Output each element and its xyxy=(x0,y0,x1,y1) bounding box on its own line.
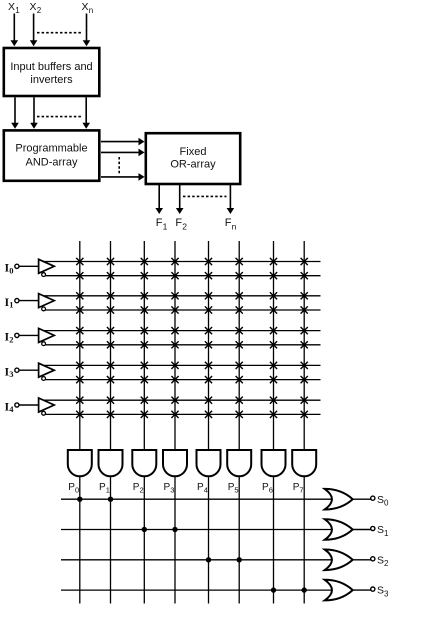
svg-text:5: 5 xyxy=(234,486,238,495)
svg-text:1: 1 xyxy=(163,221,168,231)
block U2: Programmable AND-array xyxy=(4,130,100,180)
AND gate P2 xyxy=(132,450,156,476)
output label S2 xyxy=(377,554,389,568)
input label Xn xyxy=(82,1,94,15)
svg-text:AND-array: AND-array xyxy=(26,156,78,168)
programmable connection X-marks on column P4 xyxy=(205,258,212,418)
AND gate P0 xyxy=(68,450,92,476)
junction: P1 to S0 xyxy=(108,497,113,502)
svg-text:0: 0 xyxy=(75,486,79,495)
wire: I3 true row xyxy=(43,364,321,366)
wire: product column P3 (AND plane) xyxy=(174,241,176,450)
wire: P2 output column (OR plane) xyxy=(143,476,145,603)
buffer/inverter B3 xyxy=(39,363,55,380)
wire: Xn input arrow xyxy=(83,14,91,47)
AND gate P3 xyxy=(163,450,187,476)
AND gate P4 xyxy=(197,450,221,476)
dotted ellipsis between X2 and Xn arrows xyxy=(37,32,83,34)
input terminal I2 xyxy=(15,333,19,337)
output terminal S2 xyxy=(371,557,375,561)
wire: I0 complement row xyxy=(45,275,321,277)
wire: X1 input arrow xyxy=(11,14,19,47)
label P6 xyxy=(262,482,273,495)
junction: P5 to S2 xyxy=(237,557,242,562)
wire: product column P7 (AND plane) xyxy=(303,241,305,450)
block U3: Fixed OR-array xyxy=(146,133,240,184)
wire: product column P6 (AND plane) xyxy=(273,241,275,450)
output label F2 xyxy=(175,217,187,231)
wire: S2 output lead xyxy=(353,559,371,561)
wire: P3 output column (OR plane) xyxy=(174,476,176,603)
programmable connection X-marks on column P7 xyxy=(301,258,308,418)
output label S0 xyxy=(377,494,389,508)
svg-text:3: 3 xyxy=(9,369,13,379)
label: Fixed OR-array xyxy=(170,146,216,170)
label P7 xyxy=(293,482,304,495)
junction: P6 to S3 xyxy=(271,587,276,592)
wire: P0 output column (OR plane) xyxy=(79,476,81,603)
output terminal S1 xyxy=(371,526,375,530)
wire: P7 output column (OR plane) xyxy=(303,476,305,603)
programmable connection X-marks on column P1 xyxy=(107,258,114,418)
wire: P4 output column (OR plane) xyxy=(208,476,210,603)
input label I0 xyxy=(5,261,14,276)
svg-text:n: n xyxy=(232,221,237,231)
output label Fn xyxy=(225,217,237,231)
junction: P0 to S0 xyxy=(77,497,82,502)
AND gate P1 xyxy=(99,450,123,476)
label P3 xyxy=(164,482,175,495)
dotted ellipsis between AND-to-OR arrows xyxy=(118,157,120,174)
wire: I2 input lead xyxy=(19,334,39,336)
wire: P1 output column (OR plane) xyxy=(110,476,112,603)
input terminal I1 xyxy=(15,299,19,303)
AND gate P6 xyxy=(262,450,286,476)
label P5 xyxy=(228,482,239,495)
input label X2 xyxy=(30,1,42,15)
output terminal S0 xyxy=(371,496,375,500)
svg-text:n: n xyxy=(89,6,93,15)
svg-text:OR-array: OR-array xyxy=(170,159,216,171)
wire: AND-to-OR arrow 2 xyxy=(101,149,145,157)
programmable connection X-marks on column P0 xyxy=(76,258,83,418)
wire: S1 output lead xyxy=(353,529,371,531)
svg-text:1: 1 xyxy=(9,300,13,310)
input label I1 xyxy=(5,295,14,310)
wire: product column P1 (AND plane) xyxy=(110,241,112,450)
svg-text:2: 2 xyxy=(9,334,13,344)
wire: buffer-to-AND arrow 3 xyxy=(82,97,90,129)
svg-text:3: 3 xyxy=(384,590,389,599)
svg-text:S: S xyxy=(377,494,384,506)
wire: I1 input lead xyxy=(19,300,39,302)
label: Input buffers and inverters xyxy=(10,61,92,86)
svg-text:2: 2 xyxy=(384,559,389,568)
wire: sum row S2 xyxy=(61,559,334,561)
programmable connection X-marks on column P3 xyxy=(171,258,178,418)
buffer/inverter B4 xyxy=(39,398,55,415)
buffer/inverter B2 xyxy=(39,328,55,345)
svg-text:inverters: inverters xyxy=(30,74,73,86)
wire: sum row S1 xyxy=(61,529,334,531)
wire: F2 output arrow xyxy=(176,185,184,214)
svg-text:7: 7 xyxy=(299,486,303,495)
AND gate P7 xyxy=(292,450,316,476)
svg-text:S: S xyxy=(377,554,384,566)
label: Programmable AND-array xyxy=(15,143,87,169)
label P2 xyxy=(133,482,144,495)
wire: AND-to-OR arrow 3 xyxy=(101,173,145,181)
OR gate S3 xyxy=(325,580,353,601)
label P0 xyxy=(68,482,79,495)
label P4 xyxy=(197,482,208,495)
OR gate S1 xyxy=(325,519,353,540)
svg-text:2: 2 xyxy=(140,486,144,495)
wire: I4 input lead xyxy=(19,404,39,406)
junction: P7 to S3 xyxy=(302,587,307,592)
input terminal I0 xyxy=(15,264,19,268)
output label S3 xyxy=(377,585,389,599)
wire: I0 input lead xyxy=(19,265,39,267)
wire: X2 input arrow xyxy=(30,14,38,47)
svg-text:1: 1 xyxy=(384,529,389,538)
wire: product column P0 (AND plane) xyxy=(79,241,81,450)
buffer/inverter B1 xyxy=(39,294,55,311)
dotted ellipsis between buffer-to-AND arrows xyxy=(37,116,83,118)
wire: F1 output arrow xyxy=(155,185,163,214)
wire: Fn output arrow xyxy=(227,185,235,214)
wire: S0 output lead xyxy=(353,498,371,500)
svg-text:S: S xyxy=(377,524,384,536)
input label I2 xyxy=(5,330,14,345)
svg-text:2: 2 xyxy=(182,221,187,231)
output terminal S3 xyxy=(371,587,375,591)
wire: I1 complement row xyxy=(45,309,321,311)
svg-text:Input buffers and: Input buffers and xyxy=(10,61,92,73)
wire: buffer-to-AND arrow 2 xyxy=(30,97,38,129)
wire: I3 input lead xyxy=(19,369,39,371)
output label S1 xyxy=(377,524,389,538)
svg-text:2: 2 xyxy=(37,6,42,15)
wire: I3 complement row xyxy=(45,379,321,381)
wire: sum row S3 xyxy=(61,589,334,591)
wire: S3 output lead xyxy=(353,589,371,591)
svg-text:Programmable: Programmable xyxy=(15,143,87,155)
wire: I2 complement row xyxy=(45,344,321,346)
OR gate S2 xyxy=(325,550,353,571)
wire: I2 true row xyxy=(43,330,321,332)
input label I3 xyxy=(5,365,14,380)
OR gate S0 xyxy=(325,489,353,510)
svg-text:4: 4 xyxy=(204,486,208,495)
svg-text:4: 4 xyxy=(9,404,14,414)
wire: I4 complement row xyxy=(45,413,321,415)
svg-text:6: 6 xyxy=(269,486,273,495)
wire: sum row S0 xyxy=(61,498,334,500)
svg-text:Fixed: Fixed xyxy=(180,146,207,158)
input label I4 xyxy=(5,399,15,414)
label P1 xyxy=(99,482,110,495)
wire: P5 output column (OR plane) xyxy=(238,476,240,603)
svg-text:1: 1 xyxy=(106,486,110,495)
wire: AND-to-OR arrow 1 xyxy=(101,138,145,146)
programmable connection X-marks on column P5 xyxy=(236,258,243,418)
AND gate P5 xyxy=(227,450,251,476)
wire: I0 true row xyxy=(43,261,321,263)
input label X1 xyxy=(8,1,20,15)
junction: P2 to S1 xyxy=(142,527,147,532)
svg-text:3: 3 xyxy=(170,486,174,495)
buffer/inverter B0 xyxy=(39,259,55,276)
svg-text:0: 0 xyxy=(9,265,13,275)
block U1: Input buffers and inverters xyxy=(4,48,100,96)
programmable connection X-marks on column P6 xyxy=(270,258,277,418)
junction: P4 to S2 xyxy=(206,557,211,562)
wire: I4 true row xyxy=(43,399,321,401)
wire: product column P2 (AND plane) xyxy=(143,241,145,450)
wire: P6 output column (OR plane) xyxy=(273,476,275,603)
dotted ellipsis between F2 and Fn arrows xyxy=(183,195,227,197)
output label F1 xyxy=(156,217,168,231)
svg-text:X: X xyxy=(82,1,89,13)
wire: product column P4 (AND plane) xyxy=(208,241,210,450)
svg-text:S: S xyxy=(377,585,384,597)
input terminal I4 xyxy=(15,403,19,407)
wire: buffer-to-AND arrow 1 xyxy=(11,97,19,129)
svg-text:X: X xyxy=(30,1,37,13)
input terminal I3 xyxy=(15,368,19,372)
svg-text:X: X xyxy=(8,1,15,13)
svg-text:1: 1 xyxy=(15,6,20,15)
wire: I1 true row xyxy=(43,295,321,297)
wire: product column P5 (AND plane) xyxy=(238,241,240,450)
programmable connection X-marks on column P2 xyxy=(141,258,148,418)
junction: P3 to S1 xyxy=(172,527,177,532)
svg-text:0: 0 xyxy=(384,499,389,508)
